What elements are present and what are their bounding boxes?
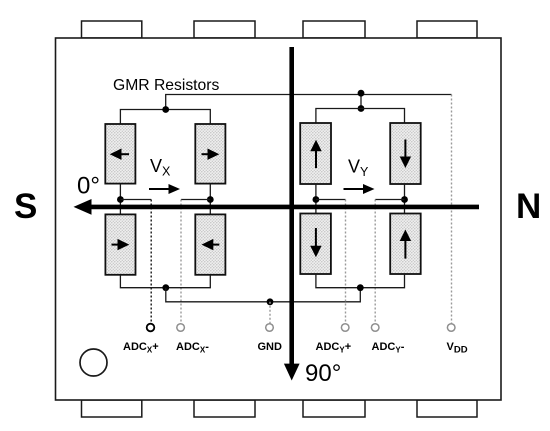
node: Vx- mid dot <box>207 196 214 203</box>
resistor R4 (X bottom-right, magnetization left) <box>195 214 225 274</box>
wire: left column mid (R1 bottom to R3 top) <box>119 184 121 215</box>
wire: right bridge rail stub <box>360 95 362 109</box>
wire: left bridge bottom bracket <box>120 275 210 288</box>
node: left bridge top junction dot <box>162 106 169 113</box>
resistor R1 (X top-left, magnetization left) <box>105 124 135 184</box>
svg-text:S: S <box>14 187 37 226</box>
node: right bridge bottom junction dot <box>357 284 364 291</box>
node: Vy+ mid dot <box>313 196 320 203</box>
pad P5 (bottom-left) <box>82 400 142 417</box>
pin ADCx+ open circle <box>147 324 155 332</box>
pad P4 (top-right) <box>417 21 477 38</box>
wire: GND dotted drop <box>269 302 271 324</box>
svg-text:ADCX+: ADCX+ <box>123 341 159 355</box>
pin ADCy- open circle <box>371 324 379 332</box>
node: rail junction dot <box>358 90 365 97</box>
node: GND tap dot <box>267 298 274 305</box>
wire: VDD dotted drop <box>451 95 453 324</box>
svg-text:ADCY-: ADCY- <box>372 341 405 355</box>
wire: ADCy+ dotted drop <box>345 200 347 324</box>
pad P1 (top-left) <box>82 21 142 38</box>
svg-text:90°: 90° <box>305 360 341 387</box>
axis: S-N horizontal field axis <box>88 205 479 210</box>
pin GND open circle <box>266 324 274 332</box>
svg-text:ADCY+: ADCY+ <box>316 341 352 355</box>
node: right bridge top junction dot <box>358 105 365 112</box>
pin ADCx- open circle <box>177 324 185 332</box>
wire: Y left column mid <box>315 184 317 214</box>
pad P8 (bottom-right) <box>417 400 477 417</box>
resistor R6 (Y top-right, magnetization down) <box>390 123 421 184</box>
wire: ADCx- dotted drop <box>180 200 182 324</box>
wire: left bridge top bracket <box>120 110 210 125</box>
wire: ADCy- tap horizontal <box>375 199 404 201</box>
node: Vy- mid dot <box>401 196 408 203</box>
node: left bridge bottom junction dot <box>162 284 169 291</box>
wire: ADCy+ tap horizontal <box>316 199 346 201</box>
wire: VDD top rail <box>166 95 452 109</box>
wire: ADCx+ tap horizontal <box>120 199 151 201</box>
wire: Y right column mid <box>404 184 406 214</box>
axis arrowhead (down, 90 degrees) <box>284 364 300 381</box>
wire: right column mid (R2 bottom to R4 top) <box>209 184 211 215</box>
resistor R3 (X bottom-left, magnetization right) <box>105 214 135 274</box>
pin-1 marker circle <box>80 349 107 376</box>
axis: 90-degree vertical field axis <box>289 47 294 366</box>
resistor R8 (Y bottom-right, magnetization up) <box>390 214 421 275</box>
pad P3 (top) <box>303 21 365 38</box>
svg-text:GMR Resistors: GMR Resistors <box>113 77 219 94</box>
wire: ADCx- tap horizontal <box>181 199 210 201</box>
svg-text:ADCX-: ADCX- <box>176 341 209 355</box>
node: Vx+ mid dot <box>117 196 124 203</box>
arrow: Vy polarity (right) <box>344 184 375 194</box>
svg-text:N: N <box>516 187 541 226</box>
resistor R2 (X top-right, magnetization right) <box>195 124 225 184</box>
wire: ADCy- dotted drop <box>374 200 376 324</box>
svg-text:0°: 0° <box>77 173 100 200</box>
pad P2 (top) <box>194 21 255 38</box>
wire: ADCx+ dotted drop <box>150 200 152 324</box>
package outline (sensor IC body) <box>56 38 502 400</box>
wire: right bridge top bracket <box>316 109 405 124</box>
svg-text:GND: GND <box>258 341 283 353</box>
wire: GND bus <box>166 288 360 302</box>
pad P6 (bottom) <box>194 400 255 417</box>
pin ADCy+ open circle <box>341 324 349 332</box>
resistor R7 (Y bottom-left, magnetization down) <box>300 214 331 275</box>
axis arrowhead (left, toward S) <box>74 199 92 215</box>
pin VDD open circle <box>447 324 455 332</box>
pad P7 (bottom) <box>303 400 365 417</box>
resistor R5 (Y top-left, magnetization up) <box>300 123 331 184</box>
wire: right bridge bottom bracket <box>316 274 405 288</box>
arrow: Vx polarity (right) <box>149 184 180 194</box>
